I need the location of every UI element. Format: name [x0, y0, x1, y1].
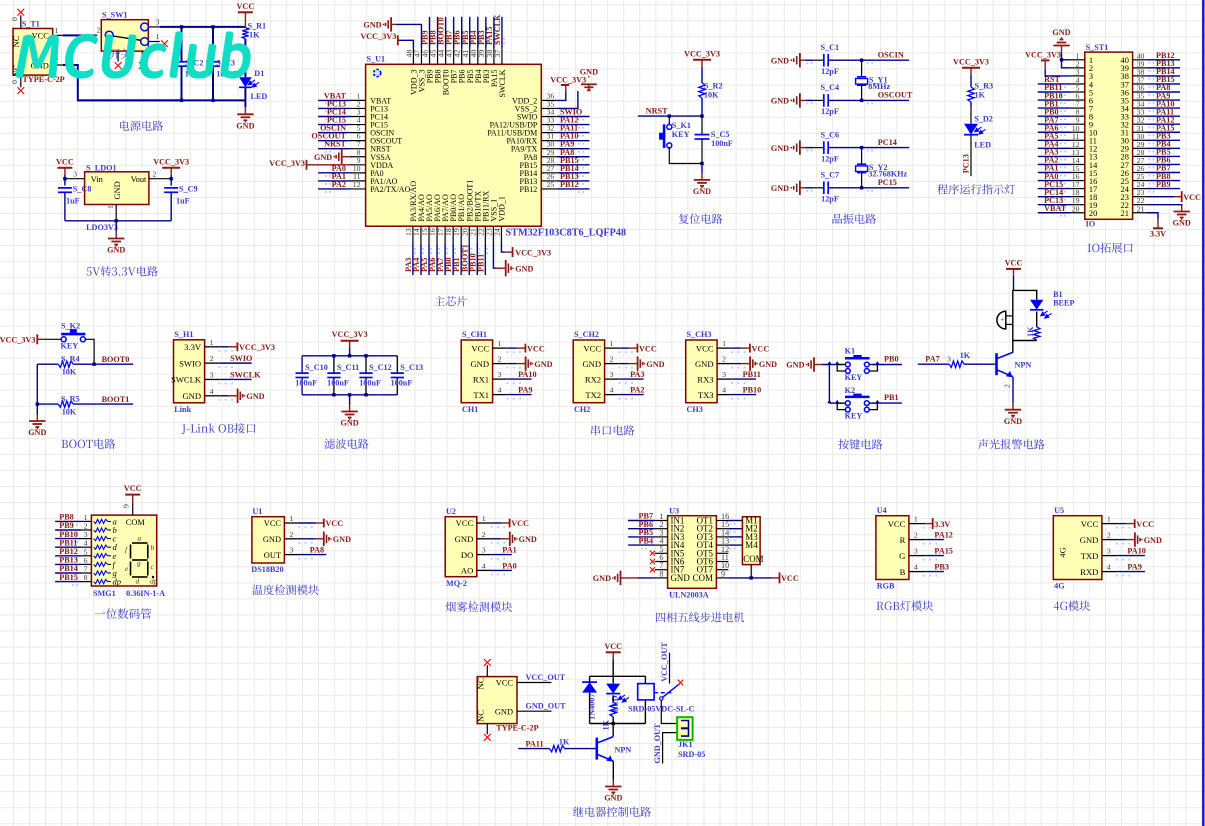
pin 15 [1071, 172, 1085, 174]
svg-text:NRST: NRST [646, 106, 668, 115]
svg-text:100nF: 100nF [327, 378, 349, 387]
svg-text:GND: GND [113, 181, 122, 199]
transistor NPN Q2 [595, 738, 598, 760]
wire net PB9 [55, 529, 81, 531]
wire net PC15 [318, 124, 350, 126]
power 3.3V at pin 21 [1147, 213, 1158, 220]
buzzer B1 BEEP [997, 311, 1006, 329]
svg-text:S_D2: S_D2 [974, 115, 993, 124]
wire net PB15 [557, 164, 590, 166]
pin 13 PA3/RX/AO [412, 226, 414, 244]
capacitor S_C8 1uF [64, 179, 66, 186]
svg-text:VCC_3V3: VCC_3V3 [0, 336, 36, 345]
pin 8 GND [655, 577, 668, 579]
pin 47 VSS_3 [420, 48, 422, 64]
pin 1 segment a [81, 520, 91, 522]
title 4G模块 [1054, 602, 1060, 610]
svg-text:Link: Link [174, 405, 191, 414]
wire net PA7 [1038, 123, 1071, 125]
ground GND [244, 100, 246, 107]
internal resistor segment c [94, 537, 108, 541]
svg-text:PA8: PA8 [310, 546, 324, 555]
wire bottom rail [1013, 340, 1037, 342]
svg-text:VCC: VCC [604, 642, 622, 651]
capacitor S_C4 12pF [814, 99, 824, 101]
svg-text:PA1: PA1 [502, 546, 516, 555]
svg-text:K1: K1 [845, 347, 855, 356]
ground GND [349, 395, 351, 405]
svg-text:Vout: Vout [131, 175, 147, 184]
svg-text:NPN: NPN [615, 746, 632, 755]
pin 3 RX3 [717, 378, 732, 380]
pin 1 marker circle [374, 69, 381, 76]
pin 31 PA10/RX [541, 140, 557, 142]
pin 1 [1071, 59, 1085, 61]
svg-text:2: 2 [210, 354, 214, 363]
svg-text:S_C10: S_C10 [305, 363, 328, 372]
ground GND top [1061, 46, 1063, 53]
pin 44 BOOT0 [445, 48, 447, 64]
svg-text:PB12: PB12 [520, 185, 538, 194]
svg-text:SRD-05: SRD-05 [678, 750, 705, 759]
wire COM net to VCC [750, 565, 752, 578]
svg-text:PB11: PB11 [476, 254, 485, 272]
power VCC_3V3 [397, 35, 399, 45]
svg-text:12pF: 12pF [821, 67, 839, 76]
svg-text:PB12: PB12 [560, 180, 579, 189]
pin 48 VDD_3 [412, 48, 414, 64]
title 晶振电路 [832, 214, 842, 224]
diode 1N4007 [589, 676, 591, 682]
svg-text:PC14: PC14 [878, 138, 897, 147]
svg-text:VCC_3V3: VCC_3V3 [1025, 50, 1061, 59]
wire net PC14 [318, 116, 350, 118]
wire net PA10 [557, 140, 590, 142]
relay switch dashed link [654, 692, 672, 694]
wire net PB0 [872, 364, 902, 366]
title 继电器控制电路 [573, 807, 583, 817]
pin 17 PA7/AO [444, 226, 446, 244]
key K1 [845, 362, 850, 367]
wire net PB7 [1147, 172, 1181, 174]
svg-text:SWCLK: SWCLK [230, 370, 261, 379]
wire net PB13 [557, 180, 590, 182]
wire net PB5 [469, 17, 471, 48]
svg-text:1: 1 [1107, 515, 1111, 524]
pin 10 [1071, 131, 1085, 133]
display SMG1 0.36IN-1-A [91, 515, 156, 586]
wire net PB0 [452, 244, 454, 275]
wire net BOOT1 [94, 403, 133, 405]
wire net PA10 [1117, 555, 1145, 557]
svg-text:GND: GND [246, 392, 264, 401]
internal resistor segment e [94, 554, 108, 558]
wire net VBAT [1038, 212, 1071, 214]
pin 5 [1071, 91, 1085, 93]
svg-text:VCC: VCC [124, 484, 142, 493]
svg-text:GND: GND [470, 359, 489, 369]
pin 7 IN7 [655, 569, 668, 571]
svg-text:100nF: 100nF [359, 378, 381, 387]
svg-text:VBAT: VBAT [1044, 204, 1067, 213]
wire net PC15 [1038, 188, 1071, 190]
svg-text:PB4: PB4 [639, 536, 654, 545]
title 5V转3.3V电路 [86, 267, 91, 275]
pin 3 TXD [1102, 555, 1117, 557]
connector TYPE-C-2P (relay power in) [477, 677, 517, 724]
svg-text:S_C6: S_C6 [821, 130, 840, 139]
wire net PA7 [444, 244, 446, 275]
pin 36 [1133, 91, 1147, 93]
pin 27 PB14 [541, 172, 557, 174]
svg-text:2: 2 [97, 26, 101, 35]
svg-text:1uF: 1uF [66, 197, 80, 206]
pin 26 [1133, 172, 1147, 174]
svg-text:a: a [138, 534, 142, 543]
pin 37 SWCLK [501, 48, 503, 64]
svg-text:1K: 1K [559, 737, 570, 746]
svg-text:NC: NC [11, 35, 21, 47]
pin 1 VCC [284, 522, 299, 524]
svg-text:COM: COM [743, 554, 763, 564]
wire net PB13 [55, 563, 81, 565]
wire net PB3 [924, 571, 944, 573]
svg-text:LDO3V3: LDO3V3 [86, 223, 118, 232]
pin 6 [1071, 99, 1085, 101]
pin 18 PB0/AO [452, 226, 454, 244]
svg-text:VCC: VCC [1183, 193, 1201, 202]
svg-text:VCC: VCC [781, 574, 799, 583]
pin 40 [1133, 59, 1147, 61]
title 一位数码管 [95, 612, 105, 613]
pin 1 VCC [1102, 523, 1117, 525]
ground GND at PC15 [799, 181, 801, 195]
svg-text:PA2: PA2 [332, 180, 346, 189]
wire pin2 to ground [732, 363, 742, 365]
wire net PA9 [1117, 571, 1145, 573]
svg-text:VCC: VCC [264, 519, 282, 528]
pin 3 segment c [81, 538, 91, 540]
LED in relay block [612, 676, 614, 683]
svg-text:1: 1 [55, 26, 59, 35]
svg-text:PB0: PB0 [884, 355, 899, 364]
relay coil SRD-05VDC-SL-C [644, 676, 646, 683]
svg-text:3: 3 [498, 370, 502, 379]
svg-text:1: 1 [210, 338, 214, 347]
pin 1 VCC [605, 347, 620, 349]
wire pin1 to power VCC [1117, 523, 1127, 525]
svg-text:VCC: VCC [511, 519, 529, 528]
pin 1 VCC [493, 347, 508, 349]
svg-text:1uF: 1uF [176, 197, 190, 206]
node junction C2 top [180, 25, 183, 28]
wire net PB1 [1038, 107, 1071, 109]
transistor NPN Q1 [995, 353, 998, 375]
wire net SWCLK [501, 17, 503, 48]
wire OT1 to motor connector [728, 520, 742, 522]
svg-text:S_R1: S_R1 [248, 21, 267, 30]
capacitor S_C5 100nF [701, 116, 703, 135]
wire net SWIO [219, 362, 251, 364]
LED D1 [244, 56, 246, 77]
pin 3 DO [477, 554, 492, 556]
wire net PB14 [557, 172, 590, 174]
svg-text:4G: 4G [1054, 582, 1065, 591]
wire net PB11 [55, 546, 81, 548]
pin 37 [1133, 83, 1147, 85]
svg-text:0: 0 [10, 17, 19, 21]
svg-text:VCC: VCC [456, 518, 474, 528]
wire net PA9 [557, 148, 590, 150]
svg-text:KEY: KEY [845, 373, 863, 382]
svg-text:VCC: VCC [1081, 519, 1099, 529]
svg-text:dp: dp [150, 577, 158, 586]
wire VCC rail top [160, 26, 246, 28]
svg-text:g: g [137, 559, 141, 568]
wire net OSCOUT [828, 99, 909, 101]
pin 38 PA15 [493, 48, 495, 64]
svg-text:S_R4: S_R4 [61, 355, 80, 364]
pin 4 TX1 [493, 394, 508, 396]
pin 2 IN2 [655, 528, 668, 530]
pin 2 GND [717, 363, 732, 365]
pin 35 VSS_2 [541, 107, 557, 109]
svg-text:GND: GND [236, 122, 254, 131]
wire net PB6 [1147, 163, 1181, 165]
wire pin24 VDD_1 to VCC_3V3 [501, 244, 504, 252]
svg-text:GND: GND [582, 359, 601, 369]
wire net PB8 [437, 17, 439, 48]
pin 30 [1133, 139, 1147, 141]
wire net PB3 [1147, 139, 1181, 141]
wire pin35 VSS_2 to GND [557, 91, 578, 108]
NC pin bottom with X [486, 724, 488, 735]
wire net PB9 [429, 17, 431, 48]
title BOOT电路 [62, 440, 68, 448]
title 串口电路 [591, 425, 600, 435]
wire net PB15 [55, 581, 81, 583]
pin 1 IN1 [655, 520, 668, 522]
pin 1 VCC [717, 347, 732, 349]
ground GND at OSCIN [799, 53, 801, 67]
key S_K2 [45, 338, 61, 340]
svg-text:SWIO: SWIO [179, 358, 201, 368]
pin 21 PB10/TX [476, 226, 478, 244]
wire pin2 to ground [507, 363, 517, 365]
svg-text:TX2: TX2 [585, 390, 601, 400]
wire net PB13 [1147, 67, 1181, 69]
svg-text:SWIO: SWIO [230, 354, 252, 363]
svg-text:S_K2: S_K2 [61, 322, 80, 331]
svg-text:SWCLK: SWCLK [171, 375, 202, 385]
svg-text:20: 20 [1089, 209, 1097, 218]
pin 11 PA1/AO [350, 180, 366, 182]
svg-text:4: 4 [914, 563, 918, 572]
title J-Link OB接口 [182, 424, 186, 434]
pin 2 GND [1102, 539, 1117, 541]
svg-text:GND: GND [363, 21, 381, 30]
svg-text:RX1: RX1 [473, 374, 489, 384]
pin 4 TX3 [717, 394, 732, 396]
svg-text:2: 2 [914, 531, 918, 540]
pin 4 segment d [81, 546, 91, 548]
wire net OSCOUT [318, 140, 350, 142]
svg-text:GND: GND [580, 67, 598, 76]
pin 10 PA0 [350, 172, 366, 174]
svg-text:4: 4 [498, 386, 502, 395]
wire net PB7 [453, 17, 455, 48]
svg-text:S_U1: S_U1 [367, 54, 386, 63]
svg-text:2: 2 [289, 530, 293, 539]
svg-text:GND: GND [604, 794, 622, 803]
svg-text:S_R2: S_R2 [704, 81, 723, 90]
svg-text:GND: GND [771, 56, 789, 65]
svg-text:SWCLK: SWCLK [493, 14, 502, 45]
pin 45 PB8 [437, 48, 439, 64]
wire net PA0 [318, 172, 350, 174]
svg-text:VCC: VCC [325, 519, 343, 528]
wire net PA8 [299, 554, 326, 556]
title IO拓展口 [1088, 244, 1091, 252]
svg-text:GND_OUT: GND_OUT [526, 702, 567, 711]
no-connect X [650, 559, 655, 564]
svg-text:U4: U4 [877, 506, 887, 515]
module U2 MQ-2 [445, 517, 477, 577]
svg-text:COM: COM [126, 518, 146, 527]
svg-text:GND: GND [182, 391, 201, 401]
pin GND to GND_OUT [517, 710, 552, 712]
wire net PA1 [1038, 172, 1071, 174]
switch pin 1 with no-connect X [149, 41, 160, 43]
svg-text:100nF: 100nF [295, 378, 317, 387]
svg-text:PA7: PA7 [925, 355, 939, 364]
svg-text:PB15: PB15 [59, 573, 78, 582]
pin 5 IN5 [655, 552, 668, 554]
svg-text:GND: GND [771, 144, 789, 153]
module S_H1 Link [174, 340, 205, 403]
pin 27 [1133, 163, 1147, 165]
svg-text:12pF: 12pF [821, 107, 839, 116]
pin 39 [1133, 67, 1147, 69]
svg-text:GND: GND [495, 707, 513, 716]
svg-text:20: 20 [1072, 204, 1080, 213]
svg-text:KEY: KEY [672, 130, 690, 139]
wire key to BOOT0 node [85, 339, 94, 364]
wire net VBAT [318, 99, 350, 101]
pin 21 [1133, 212, 1147, 214]
capacitor S_C9 1uF [170, 175, 172, 186]
connector JK1 SRD-05 [677, 717, 693, 740]
internal resistor segment g [94, 571, 108, 575]
wire net PA0 [491, 569, 511, 571]
capacitor S_C11 100nF [333, 356, 335, 373]
pin 16 PA6/AO [436, 226, 438, 244]
svg-text:VCC_3V3: VCC_3V3 [684, 49, 720, 58]
pin 3 Vin [66, 178, 85, 180]
wire pin36 VDD_2 to VCC_3V3 [557, 91, 566, 100]
wire net PA12 [924, 539, 944, 541]
internal resistor segment b [94, 528, 108, 532]
svg-text:GND: GND [28, 428, 46, 437]
wire bottom rail [590, 723, 646, 725]
ground GND at OSCOUT [799, 93, 801, 107]
svg-text:TYPE-C-2P: TYPE-C-2P [22, 75, 64, 84]
title 烟雾检测模块 [446, 602, 456, 612]
pin 0 top NC with no-connect X [20, 15, 22, 28]
pin VCC to VCC_OUT [517, 682, 552, 684]
wire net PA10 [1147, 107, 1181, 109]
svg-text:4G: 4G [1058, 547, 1067, 557]
svg-text:S_CH1: S_CH1 [462, 330, 487, 339]
capacitor S_C1 12pF [814, 59, 824, 61]
wire net PA15 [924, 555, 944, 557]
power VCC_3V3 at pin 9 VDDA [307, 164, 350, 166]
pin 11 [1071, 139, 1085, 141]
svg-text:NPN: NPN [1015, 361, 1032, 370]
svg-text:1: 1 [106, 205, 115, 209]
title 声光报警电路 [978, 439, 988, 449]
svg-text:S_CH3: S_CH3 [687, 330, 712, 339]
svg-text:KEY: KEY [845, 412, 863, 421]
pin 1 VBAT [350, 99, 366, 101]
svg-text:8: 8 [84, 573, 88, 582]
svg-text:21: 21 [1121, 209, 1129, 218]
svg-text:NC: NC [476, 710, 486, 722]
wire net PA11 [557, 132, 590, 134]
svg-text:PA10: PA10 [1127, 547, 1146, 556]
svg-text:2: 2 [610, 355, 614, 364]
svg-text:GND: GND [107, 246, 125, 255]
power VCC_3V3 [505, 251, 513, 253]
wire pin1 to power VCC [619, 347, 629, 349]
wire OT2 to motor connector [728, 528, 742, 530]
svg-text:ULN2003A: ULN2003A [669, 591, 709, 600]
pin 2 segment b [81, 529, 91, 531]
svg-text:U3: U3 [669, 507, 679, 516]
capacitor S_C7 12pF [814, 187, 824, 189]
wire net PB14 [55, 572, 81, 574]
pin 6 segment f [81, 563, 91, 565]
pin 43 PB7 [453, 48, 455, 64]
pin 20 [1071, 212, 1085, 214]
title 四相五线步进电机 [656, 613, 665, 623]
svg-text:S_C12: S_C12 [369, 363, 392, 372]
ground GND [612, 780, 614, 787]
sheet border right edge [1202, 0, 1204, 826]
wire net RST [1038, 83, 1071, 85]
svg-text:4: 4 [210, 387, 214, 396]
pin 1 VCC [53, 34, 63, 36]
pin 3 IN3 [655, 536, 668, 538]
svg-text:S_C9: S_C9 [179, 185, 198, 194]
wire net PA4 [1038, 147, 1071, 149]
wire net PA4 [420, 244, 422, 275]
svg-text:SWCLK: SWCLK [498, 69, 507, 97]
resistor S_R5 10K [37, 403, 58, 405]
pin 42 PB6 [461, 48, 463, 64]
pin 3 G [909, 555, 924, 557]
svg-text:12: 12 [353, 180, 361, 189]
svg-text:2: 2 [482, 530, 486, 539]
wire net PB4 [477, 17, 479, 48]
wire net BOOT0 [94, 363, 133, 365]
wire net PB1 [872, 402, 902, 404]
svg-text:1: 1 [289, 514, 293, 523]
svg-text:PA10: PA10 [518, 370, 537, 379]
svg-text:3: 3 [73, 169, 77, 178]
pin 2 GND [477, 538, 492, 540]
wire net PA6 [1038, 131, 1071, 133]
